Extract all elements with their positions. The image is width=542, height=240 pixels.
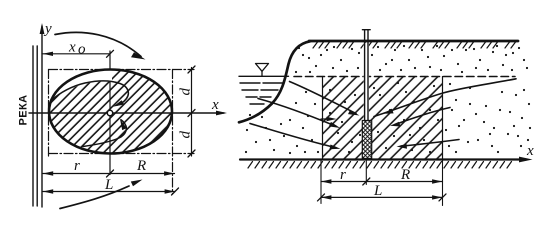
y-axis [41, 26, 43, 207]
river bank double line [32, 46, 34, 206]
streamline into well (lower) [83, 120, 126, 147]
rotation sweep arrow top [55, 32, 141, 56]
flow line right lower [401, 140, 459, 147]
hatched block right boundary [442, 77, 444, 160]
flow curve from right (long) [374, 79, 516, 117]
d dim tick middle [188, 110, 195, 117]
svg-text:y: y [43, 21, 52, 37]
well pipe interior (white) [364, 43, 369, 121]
ground surface line [309, 40, 518, 43]
x0 dimension line [42, 53, 110, 55]
svg-text:d: d [178, 131, 194, 139]
r/R dimension line [43, 173, 175, 175]
svg-text:L: L [373, 183, 382, 199]
well pipe top cap [362, 29, 370, 31]
centerline rectangle bottom edge with extension [49, 153, 195, 155]
extension line right (section dims) [442, 160, 444, 206]
soil stippling dots [245, 45, 531, 154]
white unhatched lens upper-left [52, 70, 112, 100]
ellipse outline [49, 70, 172, 154]
extension line left (section dims) [320, 160, 322, 204]
river bank slope curve [239, 41, 310, 122]
L dimension line (section) [321, 196, 443, 198]
water shading dashes [240, 83, 283, 104]
centerline rectangle right edge with extension down [172, 70, 174, 195]
flow line right middle [395, 108, 450, 125]
ellipse depression cone contour (hatched) [49, 70, 172, 154]
x-axis [29, 112, 224, 114]
water table dashed line [294, 76, 515, 78]
d dimension line [191, 68, 193, 157]
svg-text:r: r [340, 167, 346, 183]
flow line lower left [250, 124, 336, 148]
sweep arrow bottom [60, 186, 129, 209]
r/R dimension line (section) [321, 181, 443, 183]
d dim tick bottom [188, 150, 195, 157]
well point at center [107, 110, 112, 115]
base line / x axis (section) [240, 158, 526, 160]
ground surface hatch ticks [313, 42, 516, 48]
svg-text:РЕКА: РЕКА [18, 95, 30, 126]
hatched soil block around well [323, 77, 443, 160]
centerline rectangle (dash-dot) top edge with extension [49, 69, 195, 71]
svg-text:x: x [68, 40, 76, 56]
base hatch ticks [248, 162, 512, 169]
extension line well center (section) [365, 159, 367, 185]
svg-text:R: R [136, 158, 146, 174]
svg-text:r: r [74, 158, 80, 174]
svg-text:R: R [400, 167, 410, 183]
well filter screen (cross-hatched) [362, 121, 371, 159]
water level symbol [256, 64, 269, 72]
flow line left middle [258, 99, 336, 127]
svg-text:x: x [211, 97, 219, 113]
water surface line [239, 75, 289, 77]
flow line from bank top to well [290, 82, 357, 114]
svg-text:d: d [178, 88, 194, 96]
streamline spiral into well (upper) [52, 81, 128, 105]
svg-text:L: L [104, 177, 113, 193]
short flow arrow left [321, 118, 330, 120]
hatched block left boundary [322, 77, 324, 160]
L dimension line (plan) [43, 191, 175, 193]
centerline rectangle left edge [48, 70, 50, 159]
d dim tick top [188, 66, 195, 73]
svg-text:x: x [526, 143, 534, 159]
center vertical extension line through well [109, 51, 111, 175]
well pipe [364, 30, 366, 121]
svg-text:o: o [78, 42, 86, 58]
